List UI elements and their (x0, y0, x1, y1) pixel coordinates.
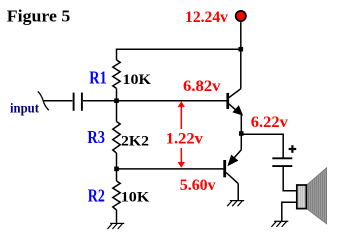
svg-text:5.60v: 5.60v (180, 177, 216, 194)
svg-text:R2: R2 (88, 185, 105, 205)
svg-text:input: input (10, 100, 39, 115)
svg-text:R3: R3 (87, 127, 105, 147)
svg-text:10K: 10K (121, 190, 150, 206)
svg-text:6.82v: 6.82v (183, 78, 221, 95)
svg-text:R1: R1 (89, 67, 107, 87)
svg-text:10K: 10K (123, 72, 152, 88)
svg-text:1.22v: 1.22v (166, 131, 203, 148)
svg-text:6.22v: 6.22v (251, 114, 288, 131)
svg-text:12.24v: 12.24v (185, 9, 228, 26)
svg-text:Figure 5: Figure 5 (7, 7, 70, 26)
svg-text:2K2: 2K2 (121, 133, 149, 149)
